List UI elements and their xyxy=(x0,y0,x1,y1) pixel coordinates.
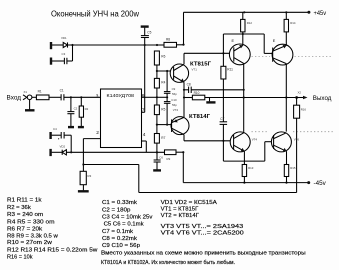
svg-text:R4 R5 = 330 om: R4 R5 = 330 om xyxy=(7,219,55,225)
svg-text:VT1 = КТ815Г: VT1 = КТ815Г xyxy=(161,206,199,212)
svg-text:3: 3 xyxy=(96,93,99,99)
svg-text:C7 = 0.1mk: C7 = 0.1mk xyxy=(102,229,133,235)
svg-text:4: 4 xyxy=(143,132,146,138)
svg-text:R2 = 36k: R2 = 36k xyxy=(7,205,31,211)
svg-text:R16: R16 xyxy=(301,108,307,112)
svg-text:56p: 56p xyxy=(172,92,177,96)
svg-text:X2: X2 xyxy=(298,91,302,95)
svg-text:C6: C6 xyxy=(159,155,163,159)
svg-text:C1 = 0.33mk: C1 = 0.33mk xyxy=(102,200,137,206)
svg-text:C3 C4 = 10mk 25v: C3 C4 = 10mk 25v xyxy=(102,215,152,221)
svg-text:6: 6 xyxy=(142,93,145,99)
svg-text:R11: R11 xyxy=(227,68,233,72)
svg-text:VT4 VT6 VT...= 2CA5200: VT4 VT6 VT...= 2CA5200 xyxy=(161,230,245,236)
svg-text:R15: R15 xyxy=(290,166,296,170)
svg-text:C10: C10 xyxy=(171,98,177,102)
svg-text:КТ814Г: КТ814Г xyxy=(189,114,211,120)
svg-text:КТ8101А и КТ8102А. Их количе: КТ8101А и КТ8102А. Их количество может б… xyxy=(101,260,235,266)
svg-text:R6: R6 xyxy=(161,55,165,59)
svg-text:VT6: VT6 xyxy=(294,137,300,141)
svg-text:R12 R13 R14 R15 = 0.22om 5w: R12 R13 R14 R15 = 0.22om 5w xyxy=(7,248,98,254)
svg-text:C8 = 0.22mk: C8 = 0.22mk xyxy=(102,236,137,242)
svg-text:R7: R7 xyxy=(161,136,165,140)
svg-text:VT1: VT1 xyxy=(192,68,198,72)
svg-text:R2: R2 xyxy=(85,107,89,111)
svg-text:C2: C2 xyxy=(74,107,78,111)
svg-text:Выход: Выход xyxy=(313,95,332,102)
svg-text:C5: C5 xyxy=(147,31,151,35)
svg-text:VT2: VT2 xyxy=(173,108,179,112)
svg-text:R5: R5 xyxy=(161,108,165,112)
svg-text:R9: R9 xyxy=(167,157,171,161)
svg-text:X1: X1 xyxy=(24,90,28,94)
svg-text:C2 = 180p: C2 = 180p xyxy=(102,207,131,213)
svg-text:C5 C6 = 0.1mk: C5 C6 = 0.1mk xyxy=(104,221,144,227)
svg-text:C7: C7 xyxy=(220,117,224,121)
svg-text:КТ815Г: КТ815Г xyxy=(190,61,212,67)
svg-text:R10: R10 xyxy=(194,91,200,95)
svg-text:VT2 = КТ814Г: VT2 = КТ814Г xyxy=(161,213,200,219)
svg-text:R14: R14 xyxy=(290,21,296,25)
svg-text:R8: R8 xyxy=(166,38,170,42)
svg-text:C8: C8 xyxy=(187,83,191,87)
svg-text:56p: 56p xyxy=(172,103,177,107)
svg-text:Оконечный УНЧ на 200w: Оконечный УНЧ на 200w xyxy=(51,10,139,19)
svg-text:C4: C4 xyxy=(53,127,57,131)
svg-text:Вместо указанных на схеме можн: Вместо указанных на схеме можно применит… xyxy=(101,251,306,257)
svg-text:VD1 VD2 = КС515А: VD1 VD2 = КС515А xyxy=(161,200,217,206)
svg-text:VD1: VD1 xyxy=(61,36,67,40)
svg-text:R10 = 27om 2w: R10 = 27om 2w xyxy=(7,240,53,246)
svg-text:Е: Е xyxy=(232,39,235,43)
svg-text:VT4: VT4 xyxy=(252,137,258,141)
svg-text:C9 C10 = 56p: C9 C10 = 56p xyxy=(102,243,141,249)
svg-text:R3 = 240 om: R3 = 240 om xyxy=(7,212,43,218)
svg-text:Е: Е xyxy=(273,39,276,43)
svg-text:C3: C3 xyxy=(62,52,66,56)
svg-text:VT3 VT5 VT...= 2SA1943: VT3 VT5 VT...= 2SA1943 xyxy=(161,224,244,230)
svg-text:R4: R4 xyxy=(161,80,165,84)
svg-text:Вход: Вход xyxy=(7,96,22,102)
svg-text:R8 R9 = 3.3k 0.5 w: R8 R9 = 3.3k 0.5 w xyxy=(7,233,59,239)
svg-text:C1: C1 xyxy=(60,89,64,93)
svg-text:2: 2 xyxy=(96,130,99,136)
svg-text:R16 = 10k: R16 = 10k xyxy=(7,255,33,261)
svg-text:R1 R11 = 1k: R1 R11 = 1k xyxy=(7,198,42,204)
svg-text:-45v: -45v xyxy=(314,180,327,187)
svg-text:C9: C9 xyxy=(172,87,176,91)
svg-text:R12: R12 xyxy=(247,21,253,25)
svg-text:К140УД708: К140УД708 xyxy=(107,93,135,98)
svg-text:R1: R1 xyxy=(38,89,42,93)
svg-text:R13: R13 xyxy=(248,166,254,170)
svg-text:+45v: +45v xyxy=(314,10,327,17)
svg-text:VD2: VD2 xyxy=(60,144,66,148)
svg-text:R3: R3 xyxy=(88,174,92,178)
svg-text:R6 R7 = 20k: R6 R7 = 20k xyxy=(7,226,42,232)
